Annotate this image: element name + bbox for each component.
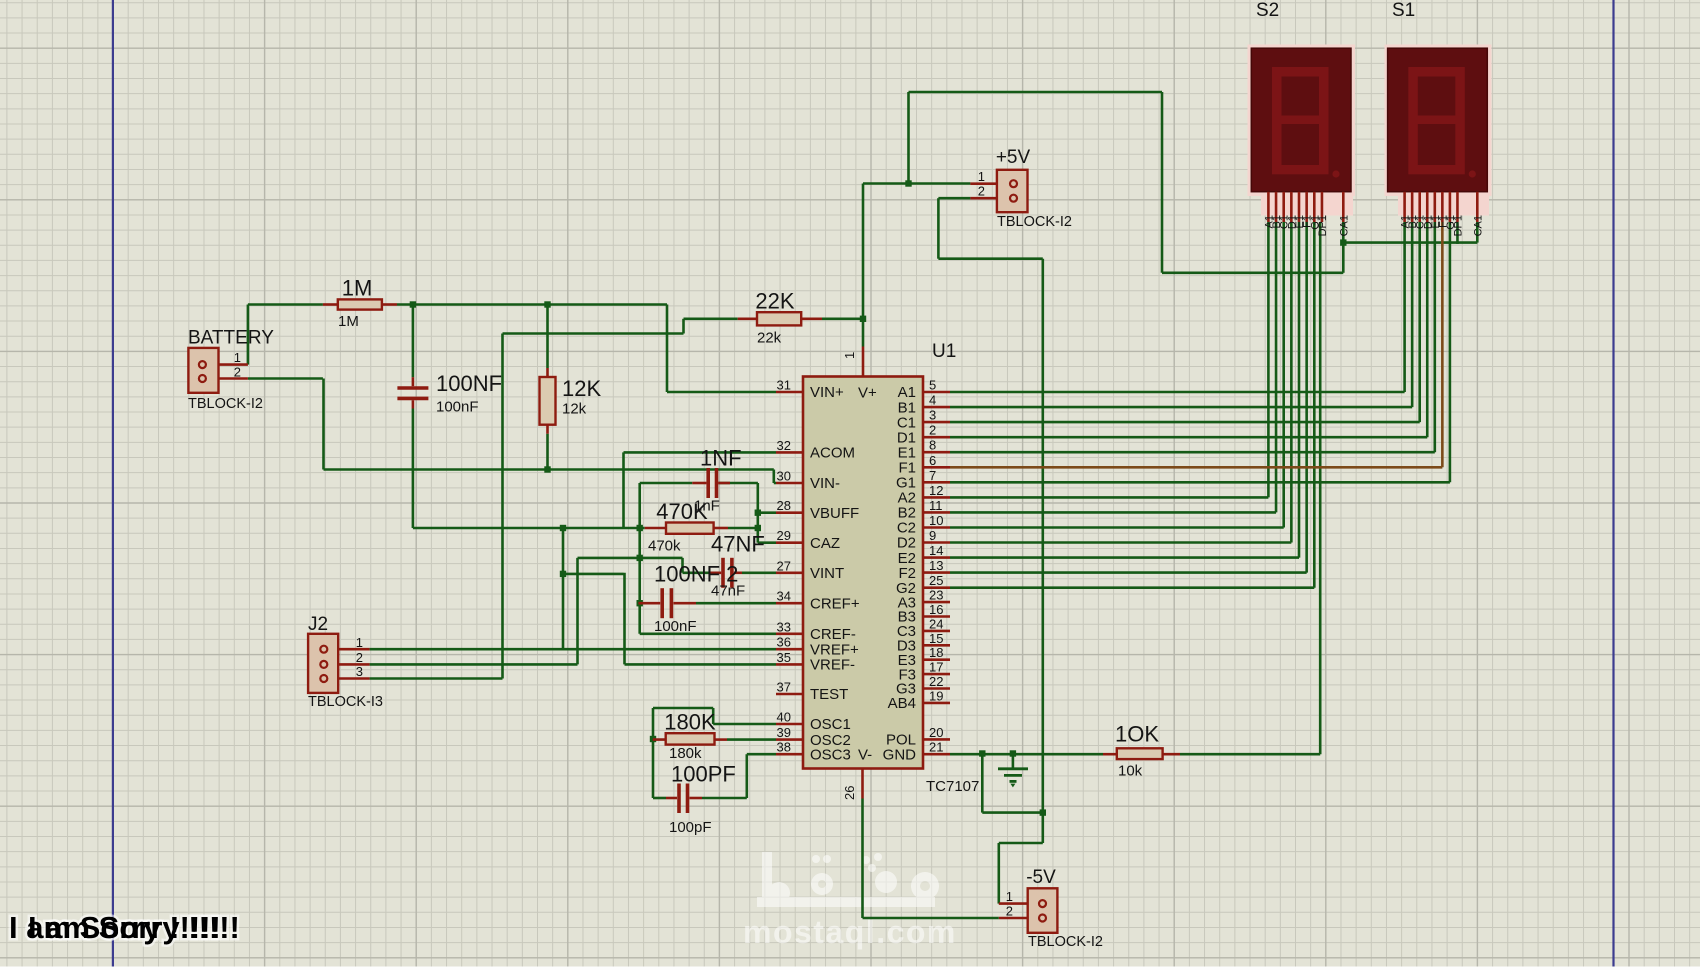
svg-text:OSC1: OSC1 <box>810 716 851 733</box>
svg-text:13: 13 <box>929 558 943 573</box>
svg-text:VIN-: VIN- <box>810 475 840 492</box>
svg-text:TBLOCK-I2: TBLOCK-I2 <box>1028 934 1103 950</box>
svg-text:S1: S1 <box>1392 0 1415 21</box>
svg-text:6: 6 <box>929 453 936 468</box>
svg-text:100nF: 100nF <box>436 399 479 416</box>
svg-text:3: 3 <box>356 664 363 679</box>
svg-text:24: 24 <box>929 616 943 631</box>
svg-text:31: 31 <box>777 378 791 393</box>
svg-text:J2: J2 <box>308 614 328 635</box>
svg-text:ACOM: ACOM <box>810 445 855 462</box>
svg-text:29: 29 <box>777 528 791 543</box>
svg-text:22k: 22k <box>757 330 782 347</box>
svg-text:DP1: DP1 <box>1317 215 1329 236</box>
svg-text:10: 10 <box>929 513 943 528</box>
svg-text:TBLOCK-I2: TBLOCK-I2 <box>997 214 1072 230</box>
svg-text:TBLOCK-I2: TBLOCK-I2 <box>188 396 263 412</box>
svg-text:1M: 1M <box>342 276 373 301</box>
svg-text:14: 14 <box>929 543 943 558</box>
svg-text:VIN+: VIN+ <box>810 384 844 401</box>
svg-text:V-: V- <box>858 747 872 764</box>
svg-text:15: 15 <box>929 631 943 646</box>
svg-text:180k: 180k <box>669 745 702 762</box>
svg-text:22: 22 <box>929 674 943 689</box>
svg-text:28: 28 <box>777 498 791 513</box>
svg-text:VINT: VINT <box>810 565 844 582</box>
svg-text:1: 1 <box>978 169 985 184</box>
svg-text:30: 30 <box>777 469 791 484</box>
svg-text:16: 16 <box>929 602 943 617</box>
svg-text:33: 33 <box>777 619 791 634</box>
svg-text:32: 32 <box>777 438 791 453</box>
svg-text:TC7107: TC7107 <box>926 778 979 795</box>
svg-text:AB4: AB4 <box>888 695 916 712</box>
svg-text:2: 2 <box>1006 904 1013 919</box>
svg-text:I am Sorry !!!!!: I am Sorry !!!!! <box>28 910 240 945</box>
svg-text:2: 2 <box>978 184 985 199</box>
svg-text:100NF 2: 100NF 2 <box>654 562 738 587</box>
svg-text:34: 34 <box>777 589 791 604</box>
svg-text:20: 20 <box>929 725 943 740</box>
svg-text:U1: U1 <box>932 341 956 362</box>
svg-text:CREF+: CREF+ <box>810 595 860 612</box>
svg-text:TBLOCK-I3: TBLOCK-I3 <box>308 694 383 710</box>
svg-text:26: 26 <box>842 786 857 800</box>
svg-text:1NF: 1NF <box>700 446 742 471</box>
svg-text:23: 23 <box>929 588 943 603</box>
svg-text:1M: 1M <box>338 313 359 330</box>
svg-text:10k: 10k <box>1118 763 1143 780</box>
svg-text:CA1: CA1 <box>1472 215 1484 236</box>
svg-text:5: 5 <box>929 378 936 393</box>
svg-text:BATTERY: BATTERY <box>188 328 274 349</box>
svg-text:11: 11 <box>929 498 943 513</box>
svg-text:22K: 22K <box>755 289 794 314</box>
svg-text:17: 17 <box>929 660 943 675</box>
svg-text:470K: 470K <box>656 499 708 524</box>
svg-text:12: 12 <box>929 483 943 498</box>
svg-text:27: 27 <box>777 558 791 573</box>
svg-text:12K: 12K <box>562 376 601 401</box>
svg-text:CAZ: CAZ <box>810 535 840 552</box>
svg-text:12k: 12k <box>562 401 587 418</box>
svg-text:19: 19 <box>929 688 943 703</box>
svg-text:18: 18 <box>929 645 943 660</box>
svg-text:1: 1 <box>234 350 241 365</box>
svg-text:100PF: 100PF <box>671 762 736 787</box>
svg-text:3: 3 <box>929 408 936 423</box>
svg-text:1: 1 <box>1006 889 1013 904</box>
svg-text:-5V: -5V <box>1026 867 1056 888</box>
svg-text:2: 2 <box>929 423 936 438</box>
svg-text:100nF: 100nF <box>654 618 697 635</box>
svg-text:+5V: +5V <box>996 147 1031 168</box>
svg-text:35: 35 <box>777 650 791 665</box>
svg-text:470k: 470k <box>648 538 681 555</box>
svg-text:100NF: 100NF <box>436 371 502 396</box>
svg-text:VREF-: VREF- <box>810 657 855 674</box>
svg-text:4: 4 <box>929 393 936 408</box>
svg-text:2: 2 <box>356 650 363 665</box>
svg-text:GND: GND <box>883 746 917 763</box>
svg-text:V+: V+ <box>858 385 877 402</box>
svg-text:VBUFF: VBUFF <box>810 505 859 522</box>
svg-text:9: 9 <box>929 528 936 543</box>
svg-text:1: 1 <box>356 635 363 650</box>
svg-text:TEST: TEST <box>810 686 848 703</box>
svg-text:7: 7 <box>929 468 936 483</box>
svg-text:37: 37 <box>777 680 791 695</box>
svg-text:mostaql.com: mostaql.com <box>743 914 957 950</box>
svg-text:2: 2 <box>234 364 241 379</box>
svg-text:47NF: 47NF <box>711 532 765 557</box>
svg-text:1OK: 1OK <box>1115 722 1159 747</box>
svg-text:40: 40 <box>777 710 791 725</box>
svg-text:39: 39 <box>777 725 791 740</box>
svg-text:180K: 180K <box>664 710 716 735</box>
svg-text:100pF: 100pF <box>669 819 712 836</box>
svg-text:8: 8 <box>929 438 936 453</box>
svg-text:CA1: CA1 <box>1338 215 1350 236</box>
svg-text:S2: S2 <box>1256 0 1279 21</box>
svg-text:36: 36 <box>777 635 791 650</box>
svg-text:DP1: DP1 <box>1452 215 1464 236</box>
svg-text:25: 25 <box>929 573 943 588</box>
svg-text:21: 21 <box>929 740 943 755</box>
svg-text:38: 38 <box>777 740 791 755</box>
svg-text:OSC3: OSC3 <box>810 746 851 763</box>
svg-text:1: 1 <box>842 352 857 359</box>
